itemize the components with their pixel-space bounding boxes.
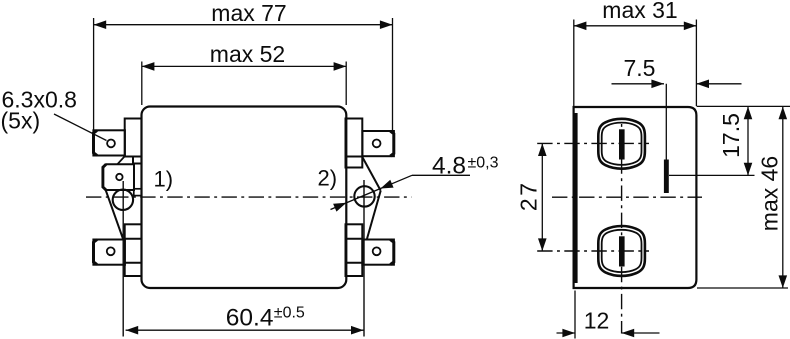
right flange outer edge bbox=[367, 191, 381, 240]
upper-left terminal holder bbox=[125, 119, 142, 157]
left flange outer edge bbox=[105, 189, 123, 239]
left hole centerline vertical bbox=[122, 181, 124, 337]
left mounting hole bbox=[113, 190, 133, 210]
svg-text:60.4: 60.4 bbox=[226, 304, 274, 331]
dimension 17.5 bbox=[669, 106, 790, 175]
side view body bbox=[574, 107, 697, 288]
lower-right terminal holder bbox=[346, 224, 363, 276]
lower-left terminal holder bbox=[125, 224, 142, 276]
svg-text:2): 2) bbox=[318, 166, 338, 191]
right hole centerline vertical bbox=[363, 180, 365, 337]
ground tab hole bbox=[116, 174, 122, 180]
dimension 12 bbox=[557, 291, 660, 339]
svg-text:27: 27 bbox=[516, 181, 542, 212]
upper-right bracket block bbox=[346, 157, 363, 168]
upper-left faston tab bbox=[93, 130, 125, 155]
upper-left tab hole bbox=[107, 140, 115, 148]
centerline upper terminal bbox=[537, 142, 649, 144]
ground pin bar bbox=[664, 160, 669, 194]
upper-right tab hole bbox=[373, 140, 381, 148]
leader 6.3x0.8 bbox=[54, 114, 107, 141]
right mounting hole bbox=[354, 186, 374, 206]
flange step plate left bbox=[134, 189, 142, 196]
dimension max 46 bbox=[697, 107, 788, 288]
svg-text:±0,3: ±0,3 bbox=[468, 154, 499, 171]
ground tab G bbox=[103, 164, 134, 190]
svg-text:max 46: max 46 bbox=[757, 156, 783, 231]
dimension max 77 bbox=[94, 18, 393, 131]
ground bracket step bbox=[133, 157, 142, 164]
svg-text:±0.5: ±0.5 bbox=[274, 305, 305, 322]
svg-text:7.5: 7.5 bbox=[624, 55, 656, 81]
lower terminal barrel bbox=[598, 226, 645, 276]
dimension max 52 bbox=[142, 62, 346, 106]
dimension 27 bbox=[541, 143, 543, 251]
svg-text:max 52: max 52 bbox=[210, 41, 285, 67]
svg-text:(5x): (5x) bbox=[1, 108, 41, 134]
upper terminal pin bar bbox=[619, 129, 625, 159]
svg-text:12: 12 bbox=[584, 308, 610, 334]
lower-left tab hole bbox=[107, 247, 115, 255]
lower terminal pin bar bbox=[619, 236, 625, 266]
leader 4.8 bbox=[331, 175, 471, 209]
side view flange plate edge bbox=[574, 113, 577, 283]
centerline side view bbox=[552, 196, 702, 198]
upper-right faston tab bbox=[362, 131, 394, 156]
centerline front view bbox=[86, 196, 412, 198]
centerline lower terminal bbox=[537, 250, 649, 252]
svg-text:4.8: 4.8 bbox=[432, 153, 466, 180]
svg-text:17.5: 17.5 bbox=[718, 113, 744, 158]
left flange upper edge bbox=[117, 157, 124, 165]
lower-left faston tab bbox=[93, 240, 125, 265]
lower-right faston tab bbox=[362, 240, 394, 265]
dimension max 31 bbox=[574, 20, 697, 107]
svg-text:1): 1) bbox=[154, 167, 174, 192]
upper-right terminal holder bbox=[346, 119, 363, 157]
svg-text:max 77: max 77 bbox=[211, 0, 286, 26]
dimension 60.4 bbox=[126, 329, 364, 331]
front view body bbox=[142, 107, 347, 289]
upper terminal barrel bbox=[598, 119, 645, 169]
svg-text:max 31: max 31 bbox=[602, 0, 677, 23]
lower-right tab hole bbox=[373, 247, 381, 255]
centerline terminals vertical bbox=[621, 124, 623, 334]
right flange upper edge bbox=[363, 158, 381, 191]
dimension 7.5 bbox=[612, 84, 742, 160]
